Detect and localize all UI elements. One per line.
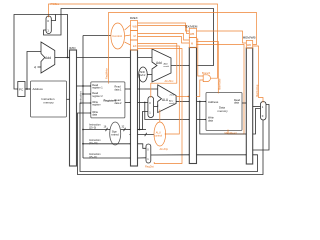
wire read register 1 <box>77 85 91 87</box>
wire M chain line2 <box>138 37 190 44</box>
wire control to EX box <box>125 42 131 45</box>
node arrowhead dots <box>17 16 264 158</box>
wire shift left 2 to branch adder <box>147 74 152 76</box>
wire write register number EX/MEM to MEM/WB <box>197 154 247 156</box>
wire read data 2 to ID/EX <box>125 101 131 103</box>
wire read data 2 to ALUSrc mux <box>138 101 148 103</box>
control box M (ID/EX) <box>131 31 138 41</box>
svg-text:M: M <box>134 34 136 38</box>
wire instr 15-11 to RegDst mux <box>138 157 147 159</box>
pipeline register MEM/WB <box>243 36 256 164</box>
wire Add output to IF/ID <box>55 57 70 59</box>
wire ALU zero to EX/MEM <box>176 96 189 97</box>
svg-text:4: 4 <box>34 66 36 70</box>
svg-text:Control: Control <box>112 34 122 38</box>
control box WB (ID/EX) <box>131 21 138 31</box>
wire MemtoReg <box>253 46 263 102</box>
wire PC to instruction memory <box>25 88 31 90</box>
svg-text:WB: WB <box>133 25 137 29</box>
wire ALU result MEM/WB to mux <box>253 109 261 135</box>
label Instruction [20-16] <box>89 139 101 145</box>
wire mux right loop <box>253 105 269 151</box>
wire ALU control to ALU <box>159 110 161 123</box>
svg-text:register: register <box>92 104 101 107</box>
svg-text:IF/ID: IF/ID <box>69 46 76 50</box>
wire instruction 15-0 to sign extend <box>83 128 110 131</box>
svg-text:ALUSrc: ALUSrc <box>165 79 175 83</box>
svg-text:memory: memory <box>218 109 229 113</box>
wire ALUSrc <box>138 44 177 97</box>
wire WB chain line2 <box>138 26 190 34</box>
control box WB (EX/MEM) <box>189 28 196 37</box>
adder Add PC+4 <box>41 42 55 73</box>
svg-text:result: result <box>164 65 170 68</box>
registers file <box>91 82 125 118</box>
wire ALU result to EX/MEM <box>176 101 189 103</box>
wire ALUSrc mux to ALU <box>154 105 158 107</box>
wire instruction 15-11 to ID/EX <box>83 157 131 159</box>
wire write data return <box>78 113 264 175</box>
wire MemRead <box>197 45 245 135</box>
svg-text:Zero: Zero <box>170 94 175 97</box>
svg-text:control: control <box>155 134 163 137</box>
wire AND output PCSrc <box>211 74 218 78</box>
wire instr 20-16 to RegDst mux <box>138 144 147 149</box>
wire write register return <box>80 103 258 172</box>
svg-text:WB: WB <box>247 43 251 47</box>
mux M2 ALUSrc <box>148 97 154 118</box>
control box M (EX/MEM) <box>189 38 196 48</box>
oval ALU control <box>154 122 166 146</box>
wire ALUOp <box>138 46 180 134</box>
wire instruction memory to IF/ID <box>67 98 70 100</box>
wire sign extend to ID/EX <box>121 128 131 131</box>
wire read data 2 to memory write data <box>145 102 190 119</box>
wire M chain line1 <box>138 34 190 41</box>
node junction dots <box>26 57 201 145</box>
wire read data 1 to ID/EX <box>125 88 131 90</box>
wire read register 2 <box>83 93 91 95</box>
wire PC to Add <box>27 52 41 90</box>
wire instruction to control <box>83 35 111 37</box>
svg-text:register 1: register 1 <box>92 87 103 90</box>
wire ALU result EX/MEM to memory address <box>197 101 207 103</box>
mux M3 RegDst <box>146 144 151 163</box>
wire branch target top black <box>44 9 214 66</box>
svg-text:result: result <box>169 102 175 105</box>
svg-text:WB: WB <box>190 32 194 36</box>
pipeline register EX/MEM <box>186 25 198 164</box>
wire 4 to Add <box>38 66 42 68</box>
pipeline register ID/EX <box>130 16 138 166</box>
svg-text:[15–0]: [15–0] <box>89 126 96 129</box>
oval sign extend <box>110 122 121 145</box>
svg-text:left 2: left 2 <box>140 74 146 77</box>
wire sign ext to shift left 2 <box>138 75 147 130</box>
svg-text:Add: Add <box>156 61 162 65</box>
wire control to M box <box>125 35 131 36</box>
label Instruction [15-0] <box>89 124 101 130</box>
wire Branch <box>197 39 204 76</box>
svg-text:ID/EX: ID/EX <box>130 16 138 20</box>
svg-text:memory: memory <box>44 101 55 105</box>
wire PCSrc orange top <box>49 4 218 74</box>
svg-text:EX/MEM: EX/MEM <box>186 25 198 29</box>
svg-text:RegDst: RegDst <box>145 165 154 169</box>
svg-text:[20–16]: [20–16] <box>89 142 98 145</box>
wire RegWrite <box>109 13 257 83</box>
wire PC+4 to mux0 <box>51 15 67 58</box>
wire funct to ALU control <box>138 133 155 136</box>
control box EX (ID/EX) <box>131 40 138 50</box>
wire control to WB box <box>125 25 131 30</box>
wire ALU result to MEM/WB <box>200 102 247 135</box>
instruction memory <box>31 81 67 117</box>
gate AND branch <box>203 75 210 82</box>
wire MemWrite <box>197 42 219 93</box>
wire WB chain EX/MEM to MEM/WB <box>197 31 247 43</box>
wire sign ext to ALUSrc mux input1 <box>138 112 148 130</box>
adder Add branch target <box>152 49 171 82</box>
svg-text:MEM/WB: MEM/WB <box>243 36 256 40</box>
wire Zero to AND <box>197 80 204 97</box>
svg-text:ALU: ALU <box>162 98 169 102</box>
svg-text:data 2: data 2 <box>115 102 123 105</box>
svg-text:MemtoReg: MemtoReg <box>256 84 259 97</box>
svg-text:MemWrite: MemWrite <box>218 78 221 90</box>
mux M4 MemtoReg <box>261 102 267 121</box>
alu ALU <box>158 85 176 113</box>
svg-text:Address: Address <box>33 87 44 91</box>
data memory <box>206 93 242 131</box>
svg-text:[15–11]: [15–11] <box>89 156 97 159</box>
svg-text:Address: Address <box>208 100 219 104</box>
svg-text:Branch: Branch <box>202 71 211 75</box>
wire memory write data after EX/MEM <box>197 119 207 121</box>
svg-text:PCSrc: PCSrc <box>51 2 60 6</box>
wire read data 1 to ALU <box>138 88 158 90</box>
svg-text:extend: extend <box>111 134 119 137</box>
pipeline register IF/ID <box>69 46 77 166</box>
svg-text:Instruction: Instruction <box>78 91 82 104</box>
register PC <box>18 82 25 97</box>
oval control <box>111 23 125 49</box>
wire instruction 20-16 to ID/EX <box>83 143 131 145</box>
svg-text:data 1: data 1 <box>115 88 123 91</box>
wire read data to mux <box>253 106 261 108</box>
wire WB chain ID/EX to EX/MEM <box>138 23 190 31</box>
svg-text:ALUOp: ALUOp <box>160 147 169 151</box>
wire RegDst mux to EX/MEM <box>151 154 190 156</box>
svg-text:data: data <box>92 114 97 117</box>
node instruction bus vertical <box>82 36 84 159</box>
wire branch adder to EX/MEM <box>171 65 189 67</box>
wire RegDst <box>138 49 183 164</box>
svg-text:data: data <box>234 102 239 105</box>
svg-text:data: data <box>208 119 213 122</box>
wire mux output to PC <box>14 15 56 90</box>
mux M1 PCSrc <box>46 16 51 34</box>
label Instruction [15-11] <box>89 153 101 159</box>
svg-text:Add: Add <box>45 56 51 60</box>
wire PC+4 IF/ID to branch adder <box>77 57 153 59</box>
control box WB (MEM/WB) <box>246 41 252 49</box>
svg-text:M: M <box>191 42 193 46</box>
oval shift left 2 <box>139 67 148 82</box>
svg-text:RegWrite: RegWrite <box>105 68 109 79</box>
svg-text:EX: EX <box>133 44 137 48</box>
svg-text:register 2: register 2 <box>92 95 103 98</box>
wire memory read data to MEM/WB <box>242 102 246 104</box>
